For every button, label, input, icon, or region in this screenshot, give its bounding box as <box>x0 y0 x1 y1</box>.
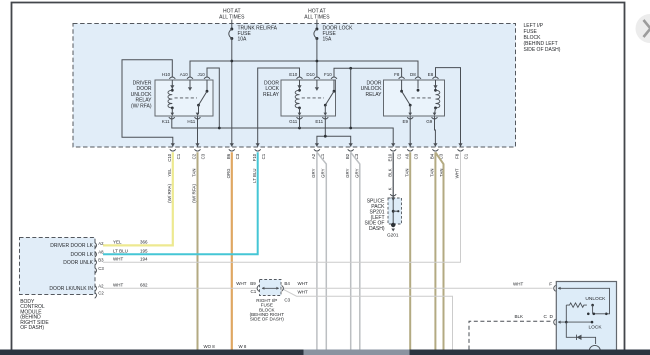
wire: relay3 G9 down to TAN connector <box>434 117 437 147</box>
svg-text:B2: B2 <box>345 153 350 159</box>
svg-text:WHT: WHT <box>513 281 523 286</box>
BCM pin C2 row <box>95 291 105 299</box>
svg-text:195: 195 <box>140 248 148 253</box>
bottom scrollbar track <box>0 350 650 355</box>
svg-text:194: 194 <box>140 256 148 261</box>
connector at fuse block bottom, pin B2/C3 <box>345 143 359 178</box>
svg-text:C1: C1 <box>396 153 401 159</box>
connector at fuse block bottom, pin A2/C1 <box>311 143 325 178</box>
svg-text:ORG: ORG <box>226 168 231 179</box>
svg-text:B3: B3 <box>98 258 104 263</box>
left I/P fuse block (big dashed box) <box>73 24 516 148</box>
svg-text:C1: C1 <box>251 289 257 294</box>
connector at fuse block bottom, pin E10/C1 <box>387 143 401 190</box>
svg-text:C1: C1 <box>176 153 181 159</box>
wire GRY pair 2 <box>350 152 352 349</box>
svg-text:E10: E10 <box>387 153 392 161</box>
splice pack SP201 <box>364 194 401 232</box>
svg-text:LT BLU: LT BLU <box>113 248 128 253</box>
wire: fuse feed bus y=61 from relay1 A10 to relay3 D8 <box>190 61 418 78</box>
wire YEL 366 (fuse block C10 to BCM A2) <box>103 152 173 245</box>
relay1 NC contact A10 <box>189 80 191 87</box>
svg-text:K: K <box>387 187 392 190</box>
wire: relay2 E11 down and split to both GRY connectors <box>317 117 325 147</box>
svg-text:GRY: GRY <box>311 168 316 177</box>
lock switch internal: feed from F <box>558 288 610 314</box>
relay3 switch-coil dashed link <box>412 97 434 99</box>
svg-text:(W/ RFA): (W/ RFA) <box>167 184 172 203</box>
connector at fuse block bottom, pin A6/C3 <box>404 143 418 177</box>
wire TAN (W/RFA) down off page <box>197 152 199 349</box>
carousel next chevron button <box>636 14 650 43</box>
svg-text:682: 682 <box>140 282 148 287</box>
svg-text:H11: H11 <box>187 119 195 124</box>
svg-text:E9: E9 <box>402 119 408 124</box>
wire LT BLU 195 (fuse block F10 to BCM A8) <box>103 152 258 254</box>
svg-text:F10: F10 <box>324 72 332 77</box>
junction E11 split <box>324 135 327 138</box>
relay3 coil E8-G9 <box>435 80 437 89</box>
connector at fuse block bottom, pin C10/C1 <box>167 143 181 203</box>
svg-text:B6: B6 <box>226 153 231 159</box>
wire: relay2 F10 over to relay3 F8 <box>334 68 402 77</box>
wire: relay1 J10 up over and down to coil-ground bus <box>207 68 219 128</box>
svg-text:C2: C2 <box>192 153 197 159</box>
svg-text:K11: K11 <box>162 119 170 124</box>
svg-text:F10: F10 <box>252 153 257 161</box>
svg-text:(W/ RFA): (W/ RFA) <box>131 103 152 109</box>
fuse: DOOR LOCK FUSE 15A <box>314 26 353 43</box>
fuse: TRUNK REL/RFA FUSE 10A <box>229 26 278 43</box>
svg-text:C3: C3 <box>413 153 418 159</box>
svg-text:A2: A2 <box>311 153 316 159</box>
wire: relay1 H10 loop to YEL connector <box>122 60 173 147</box>
svg-text:D: D <box>550 314 554 320</box>
svg-text:BLK: BLK <box>515 314 524 319</box>
wire: relay3 E8 over and down to WHT connector <box>436 68 461 147</box>
lock switch blade <box>594 313 607 315</box>
BCM pin B3 row <box>63 256 148 266</box>
svg-text:A8: A8 <box>98 250 104 255</box>
svg-text:WO 8: WO 8 <box>204 344 216 349</box>
wire ORG down off page <box>231 152 233 349</box>
svg-text:DOOR LK/UNLK IN: DOOR LK/UNLK IN <box>49 286 93 292</box>
wire: fuse1 down to junction and on down to ORG connector <box>231 39 233 147</box>
connector at fuse block bottom, pin B4/C3 <box>430 143 444 177</box>
svg-text:TAN: TAN <box>192 169 197 177</box>
right I/P fuse block (in-line connector) <box>236 280 308 303</box>
svg-text:J10: J10 <box>198 72 206 77</box>
wire: relay3 E9 down to TAN connector <box>409 117 411 147</box>
resistor left leg down to C/D row <box>565 305 567 322</box>
wire TAN (A6) down off page <box>409 152 411 349</box>
ground G201 <box>387 223 399 238</box>
svg-text:RELAY: RELAY <box>263 92 280 98</box>
wire: fuse2 down through junction to relay2 D10 <box>316 39 318 78</box>
svg-text:C3: C3 <box>201 153 206 159</box>
body control module dashed box <box>20 238 96 295</box>
svg-text:GRY: GRY <box>354 168 359 177</box>
svg-text:UNLOCK: UNLOCK <box>585 296 606 302</box>
junction fuse2 / bus <box>316 60 319 63</box>
svg-text:C2: C2 <box>98 291 104 296</box>
svg-text:YEL: YEL <box>113 239 122 244</box>
wire BLK dashed from off-page to lock switch C/D <box>469 321 553 349</box>
svg-text:C3: C3 <box>284 298 290 303</box>
wire BLK to splice pack <box>392 152 394 211</box>
relay2 coil-switch dashed link <box>302 97 324 99</box>
svg-text:GRY: GRY <box>345 168 350 177</box>
BCM pin A2 row <box>50 239 148 249</box>
svg-text:15A: 15A <box>323 36 333 42</box>
wire WHT branch via diagonal down-off page <box>283 289 453 350</box>
svg-text:C: C <box>544 314 548 320</box>
svg-text:F: F <box>549 281 552 287</box>
relay1 switch J10-H11 <box>206 80 208 91</box>
junction fuse1 / bus <box>230 60 233 63</box>
BCM pin C3 row <box>95 266 105 274</box>
label: BODY CONTROL MODULE (BEHIND RIGHT SIDE OF DASH) <box>20 299 49 331</box>
wire: relay2 E10 loop down to LT BLU connector <box>258 68 300 147</box>
svg-text:F8: F8 <box>394 72 400 77</box>
relay3 switch F8-E9 <box>401 80 403 91</box>
svg-text:OF DASH): OF DASH) <box>20 325 44 331</box>
relay2 NC contact D10 <box>316 80 318 87</box>
relay2 switch F10-E11 <box>333 80 335 91</box>
svg-text:RELAY: RELAY <box>365 92 382 98</box>
svg-text:WHT: WHT <box>236 281 246 286</box>
lock actuator motor <box>589 345 600 355</box>
svg-text:ALL TIMES: ALL TIMES <box>304 14 330 20</box>
svg-text:WHT: WHT <box>298 290 308 295</box>
bottom scrollbar thumb <box>304 350 410 355</box>
wire GRY pair 1 <box>316 152 318 349</box>
junction bus/F10 drop <box>349 127 352 130</box>
wire: relay2 G11 down to bus <box>299 117 301 129</box>
svg-text:SIDE OF DASH): SIDE OF DASH) <box>524 47 561 53</box>
junction on F10-F8 wire <box>349 67 352 70</box>
svg-text:WHT: WHT <box>113 256 123 261</box>
svg-text:F8: F8 <box>455 153 460 159</box>
junction bus/J10 <box>218 127 221 130</box>
wire TAN pair (B4) down off page <box>434 152 436 349</box>
label: RIGHT I/P FUSE BLOCK <box>250 298 285 322</box>
wire WHT 682 BCM A2 to right I/P fuse block and lock switch pin F <box>103 287 258 289</box>
svg-text:A10: A10 <box>180 72 189 77</box>
relay: door lock relay <box>263 72 337 124</box>
svg-text:G9: G9 <box>426 119 433 124</box>
wire: coil ground bus y=128 <box>172 117 393 147</box>
svg-text:A6: A6 <box>404 153 409 159</box>
relay2 coil E10-G11 <box>299 80 301 89</box>
wire from HOT AT to fuse 2 <box>316 20 318 30</box>
svg-text:W 8: W 8 <box>239 344 247 349</box>
svg-text:DOOR LK: DOOR LK <box>70 252 93 258</box>
svg-text:GRY: GRY <box>321 168 326 177</box>
connector at fuse block bottom, pin F8/C1 <box>455 143 469 178</box>
svg-text:B4: B4 <box>284 281 290 286</box>
svg-text:ALL TIMES: ALL TIMES <box>219 14 245 20</box>
connector at fuse block bottom, pin F10/C1 <box>252 143 266 183</box>
svg-text:WHT: WHT <box>298 281 308 286</box>
wire: relay1 H11 down to TAN connector <box>197 117 199 147</box>
diode and motor feed <box>566 322 595 344</box>
svg-text:A2: A2 <box>98 241 104 246</box>
svg-text:DASH): DASH) <box>369 226 385 232</box>
svg-text:E8: E8 <box>428 72 434 77</box>
wire WHT 194 (fuse block F8 to BCM B3) <box>103 152 461 262</box>
svg-text:G201: G201 <box>387 233 399 238</box>
svg-text:E10: E10 <box>289 72 298 77</box>
svg-text:LT BLU: LT BLU <box>252 169 257 183</box>
svg-text:366: 366 <box>140 239 148 244</box>
connector at fuse block bottom, pin C2/C3 <box>192 143 206 203</box>
svg-text:C3: C3 <box>235 153 240 159</box>
label: LEFT I/P FUSE BLOCK <box>524 23 561 53</box>
svg-text:D10: D10 <box>306 72 315 77</box>
connector at fuse block bottom, pin B6/C3 <box>226 143 240 178</box>
junction bus/G11 <box>298 127 301 130</box>
svg-text:DRIVER DOOR LK: DRIVER DOOR LK <box>50 243 93 249</box>
svg-text:SIDE OF DASH): SIDE OF DASH) <box>250 317 284 322</box>
svg-text:(W/ RFA): (W/ RFA) <box>192 184 197 203</box>
svg-text:D8: D8 <box>410 72 416 77</box>
relay: driver door unlock relay (W/ RFA) <box>131 72 213 124</box>
svg-text:B4: B4 <box>430 153 435 159</box>
svg-text:E11: E11 <box>315 119 323 124</box>
relay3 NC contact D8 <box>417 80 419 88</box>
svg-text:LOCK: LOCK <box>589 324 603 330</box>
svg-text:H10: H10 <box>162 72 171 77</box>
svg-text:TAN: TAN <box>430 169 435 177</box>
svg-text:TAN: TAN <box>404 169 409 177</box>
svg-text:G11: G11 <box>289 119 298 124</box>
BCM pin A2 row <box>49 282 148 292</box>
relay1 coil-switch dashed link <box>175 97 198 99</box>
svg-text:WHT: WHT <box>113 282 123 287</box>
svg-text:C1: C1 <box>261 153 266 159</box>
svg-text:C3: C3 <box>98 266 104 271</box>
svg-text:C10: C10 <box>167 153 172 162</box>
node: HOT AT ALL TIMES (right) <box>304 9 330 21</box>
relay: door unlock relay <box>361 72 445 124</box>
svg-text:B9: B9 <box>250 281 256 286</box>
node: HOT AT ALL TIMES (left) <box>219 9 245 21</box>
wire: drop from F10-F8 wire to coil-ground bus <box>350 68 352 128</box>
svg-text:WHT: WHT <box>455 168 460 178</box>
svg-text:BLK: BLK <box>387 168 392 176</box>
svg-text:DOOR UNLK: DOOR UNLK <box>63 260 93 266</box>
wire from HOT AT to fuse 1 <box>231 20 233 30</box>
svg-text:C1: C1 <box>464 153 469 159</box>
door lock switch box <box>513 281 617 355</box>
BCM pin A8 row <box>70 248 148 258</box>
svg-text:10A: 10A <box>238 36 248 42</box>
svg-text:YEL: YEL <box>167 168 172 177</box>
relay1 coil H10-K11 <box>171 80 173 89</box>
